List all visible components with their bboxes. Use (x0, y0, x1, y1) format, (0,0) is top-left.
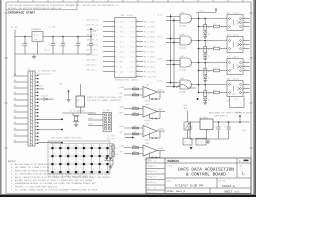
svg-text:J4 PWR: J4 PWR (229, 93, 236, 96)
svg-text:a: a (244, 21, 245, 23)
svg-text:IN OUT: IN OUT (33, 33, 39, 36)
svg-text:AIN2: AIN2 (120, 106, 125, 109)
svg-text:GND: GND (35, 38, 38, 41)
svg-text:9: 9 (137, 59, 138, 62)
svg-text:-: - (144, 134, 145, 137)
svg-text:AQV212: AQV212 (233, 55, 239, 58)
svg-text:REF: REF (120, 92, 123, 95)
svg-text:P1.7: P1.7 (131, 55, 135, 58)
svg-text:D4: D4 (208, 98, 210, 101)
svg-text:RADCO: RADCO (168, 159, 180, 163)
svg-text:a: a (244, 43, 245, 45)
svg-text:a: a (244, 83, 245, 85)
svg-text:P0.0: P0.0 (131, 60, 135, 63)
svg-text:C: C (64, 41, 65, 44)
svg-text:17: 17 (115, 55, 117, 58)
svg-text:-: - (144, 153, 145, 156)
svg-text:MOSI: MOSI (89, 112, 94, 115)
svg-text:a: a (244, 25, 245, 27)
svg-text:P1.3 (T2): P1.3 (T2) (144, 35, 155, 38)
svg-text:R17: R17 (115, 146, 118, 149)
svg-text:P3.4: P3.4 (120, 40, 124, 43)
svg-text:14: 14 (115, 40, 117, 43)
svg-text:P0.2: P0.2 (131, 70, 135, 73)
svg-text:P1.10 (T2): P1.10 (T2) (144, 70, 156, 73)
svg-text:RLY2: RLY2 (158, 36, 163, 39)
svg-text:nws: nws (154, 182, 157, 184)
svg-text:P1.1: P1.1 (131, 25, 135, 28)
svg-text:AQV212: AQV212 (233, 77, 239, 80)
svg-text:DRAWN: DRAWN (147, 164, 152, 167)
svg-text:P3.0: P3.0 (120, 20, 124, 23)
svg-text:7: 7 (137, 49, 138, 52)
svg-text:C: C (79, 41, 80, 44)
svg-text:P1.4: P1.4 (131, 40, 135, 43)
svg-text:C: C (26, 41, 27, 44)
svg-text:AOUT3: AOUT3 (158, 128, 165, 131)
svg-text:TITLE: TITLE (167, 164, 172, 167)
svg-text:RXD (P3.0): RXD (P3.0) (87, 19, 98, 22)
svg-text:AQV212: AQV212 (233, 11, 239, 14)
svg-text:DWG NO: DWG NO (219, 180, 225, 183)
svg-text:9. ALL SIGNAL NAMES REFER TO T: 9. ALL SIGNAL NAMES REFER TO THE MCU DAT… (11, 189, 98, 192)
svg-text:D3: D3 (208, 76, 210, 79)
svg-text:AQV212: AQV212 (233, 33, 239, 36)
svg-text:RXD (P3.3): RXD (P3.3) (87, 34, 98, 37)
svg-text:P1.5: P1.5 (131, 45, 135, 48)
svg-text:P1.6: P1.6 (131, 50, 135, 53)
svg-text:P3.1: P3.1 (120, 25, 124, 28)
svg-text:P1.2: P1.2 (131, 30, 135, 33)
svg-text:a: a (244, 87, 245, 89)
svg-text:MOSI: MOSI (89, 117, 94, 120)
svg-text:10: 10 (115, 20, 117, 23)
svg-text:RXD (ALE): RXD (ALE) (87, 69, 97, 72)
svg-text:1: 1 (137, 19, 138, 22)
svg-text:RXD (EA): RXD (EA) (87, 64, 96, 67)
svg-text:a: a (244, 69, 245, 71)
svg-text:P1.3: P1.3 (131, 35, 135, 38)
svg-text:C2 10: C2 10 (44, 49, 49, 52)
svg-text:a: a (244, 91, 245, 93)
svg-text:13: 13 (115, 35, 117, 38)
svg-text:WITHOUT THE WRITTEN PERMISSION: WITHOUT THE WRITTEN PERMISSION OF RADCO … (8, 7, 62, 10)
svg-text:CORP: CORP (147, 159, 151, 162)
svg-text:THE CASE AT NORMAL OPERATION: THE CASE AT NORMAL OPERATION (87, 99, 121, 102)
svg-text:P1.4 (T2): P1.4 (T2) (144, 40, 155, 43)
svg-text:P1.8 (T2): P1.8 (T2) (144, 60, 155, 63)
svg-text:D1: D1 (208, 32, 210, 35)
svg-text:ROW DRV: ROW DRV (107, 137, 115, 140)
svg-text:RXD (P3.4): RXD (P3.4) (87, 39, 98, 42)
svg-text:10: 10 (137, 64, 139, 67)
svg-text:8: 8 (137, 54, 138, 57)
svg-text:ISSUE: ISSUE (147, 175, 152, 178)
svg-text:3: 3 (137, 29, 138, 32)
svg-text:16: 16 (115, 50, 117, 53)
svg-text:a: a (244, 17, 245, 19)
svg-text:AOUT1: AOUT1 (158, 89, 165, 92)
svg-text:ALE: ALE (120, 70, 123, 73)
svg-text:(SEE NOTE 3): (SEE NOTE 3) (214, 115, 228, 118)
svg-text:6: 6 (137, 44, 138, 47)
svg-text:5: 5 (137, 39, 138, 42)
svg-text:P3.2: P3.2 (120, 30, 124, 33)
svg-text:DATE: DATE (167, 180, 171, 183)
svg-text:REF: REF (120, 131, 123, 134)
svg-text:TP: TP (184, 141, 186, 144)
svg-text:RXD (P3.1): RXD (P3.1) (87, 24, 98, 27)
svg-text:RXD (P3.2): RXD (P3.2) (87, 29, 98, 32)
svg-text:-: - (144, 95, 145, 98)
svg-text:P3.3: P3.3 (120, 35, 124, 38)
svg-text:P1.6 (T2): P1.6 (T2) (144, 50, 155, 53)
svg-text:GND: GND (235, 98, 238, 101)
svg-text:XTL1: XTL1 (120, 50, 124, 53)
svg-text:SHEET 1/1: SHEET 1/1 (224, 189, 239, 193)
svg-text:nws: nws (154, 176, 157, 178)
svg-text:nws: nws (154, 165, 157, 167)
svg-text:a: a (244, 39, 245, 41)
svg-text:INTERFACE START: INTERFACE START (8, 11, 35, 14)
svg-text:AOUT4: AOUT4 (158, 147, 165, 150)
svg-text:18: 18 (115, 60, 117, 63)
svg-text:74LS08: 74LS08 (179, 69, 187, 72)
svg-text:19: 19 (115, 65, 117, 68)
svg-text:P0.1: P0.1 (131, 65, 135, 68)
svg-text:DS87C520-MCL (8051): DS87C520-MCL (8051) (115, 79, 138, 82)
svg-text:Y1 11.0592MHZ: Y1 11.0592MHZ (70, 110, 86, 113)
svg-text:D2: D2 (208, 54, 210, 57)
svg-text:COL DRV: COL DRV (107, 135, 115, 138)
svg-text:15: 15 (115, 45, 117, 48)
svg-text:V8316-A: V8316-A (222, 184, 235, 188)
svg-text:RXD (P3.5): RXD (P3.5) (87, 44, 98, 47)
svg-text:& CONTROL BOARD: & CONTROL BOARD (186, 173, 226, 178)
svg-text:P1.2 (T2): P1.2 (T2) (144, 30, 155, 33)
svg-text:nws: nws (154, 171, 157, 173)
svg-text:P1.0: P1.0 (131, 20, 135, 23)
svg-text:11: 11 (137, 69, 139, 72)
svg-text:VIN: VIN (226, 99, 229, 102)
svg-text:20: 20 (115, 70, 117, 73)
svg-text:RXD (RST): RXD (RST) (87, 59, 97, 62)
svg-text:4: 4 (137, 34, 138, 37)
svg-text:P1.0 (T2): P1.0 (T2) (144, 20, 155, 23)
svg-text:P1.7 (T2): P1.7 (T2) (144, 55, 155, 58)
svg-text:P3.5: P3.5 (120, 45, 124, 48)
svg-text:C: C (54, 41, 55, 44)
svg-text:C1 100: C1 100 (49, 26, 57, 29)
svg-text:-: - (144, 114, 145, 117)
svg-text:nws: nws (154, 160, 157, 162)
svg-text:P1.5 (T2): P1.5 (T2) (144, 45, 155, 48)
svg-text:a: a (244, 47, 245, 49)
svg-text:REF: REF (120, 151, 123, 154)
svg-text:LED STATUS ARRAY DS1-DS32: LED STATUS ARRAY DS1-DS32 (51, 137, 82, 140)
svg-text:R18: R18 (115, 153, 118, 156)
svg-text:AOUT2: AOUT2 (158, 108, 164, 111)
svg-text:74LS08: 74LS08 (179, 47, 187, 50)
svg-text:XTL2: XTL2 (120, 55, 124, 58)
svg-text:VCC2: VCC2 (200, 10, 204, 13)
svg-text:2: 2 (137, 24, 138, 27)
svg-text:a: a (244, 65, 245, 67)
svg-text:87C52: 87C52 (127, 14, 133, 17)
svg-text:11: 11 (115, 25, 117, 28)
svg-text:RXD (XTL1): RXD (XTL1) (87, 49, 98, 52)
svg-text:P1.9 (T2): P1.9 (T2) (144, 65, 155, 68)
svg-text:12: 12 (137, 74, 139, 77)
svg-text:MOSI: MOSI (89, 123, 94, 126)
svg-text:9V IN: 9V IN (11, 26, 18, 29)
svg-text:74LS08: 74LS08 (179, 91, 187, 94)
svg-text:12: 12 (115, 30, 117, 33)
svg-text:J2 ISP: J2 ISP (103, 109, 111, 112)
svg-text:nws: nws (154, 187, 157, 189)
svg-text:REF: REF (120, 112, 123, 115)
svg-text:RXD (XTL2): RXD (XTL2) (87, 54, 98, 57)
svg-text:(DB25 MALE): (DB25 MALE) (38, 72, 50, 75)
svg-text:6/13/97 9:08 PM: 6/13/97 9:08 PM (175, 183, 203, 187)
svg-text:74LS08: 74LS08 (179, 25, 187, 28)
svg-text:a: a (244, 61, 245, 63)
svg-text:LM7805CT: LM7805CT (32, 28, 42, 31)
svg-text:1N4148: 1N4148 (41, 94, 49, 97)
svg-text:FILE: dacs_m: FILE: dacs_m (167, 190, 186, 193)
svg-text:P1.11 (T2): P1.11 (T2) (144, 75, 156, 78)
svg-text:P1.1 (T2): P1.1 (T2) (144, 25, 155, 28)
svg-text:x8: x8 (124, 133, 126, 136)
